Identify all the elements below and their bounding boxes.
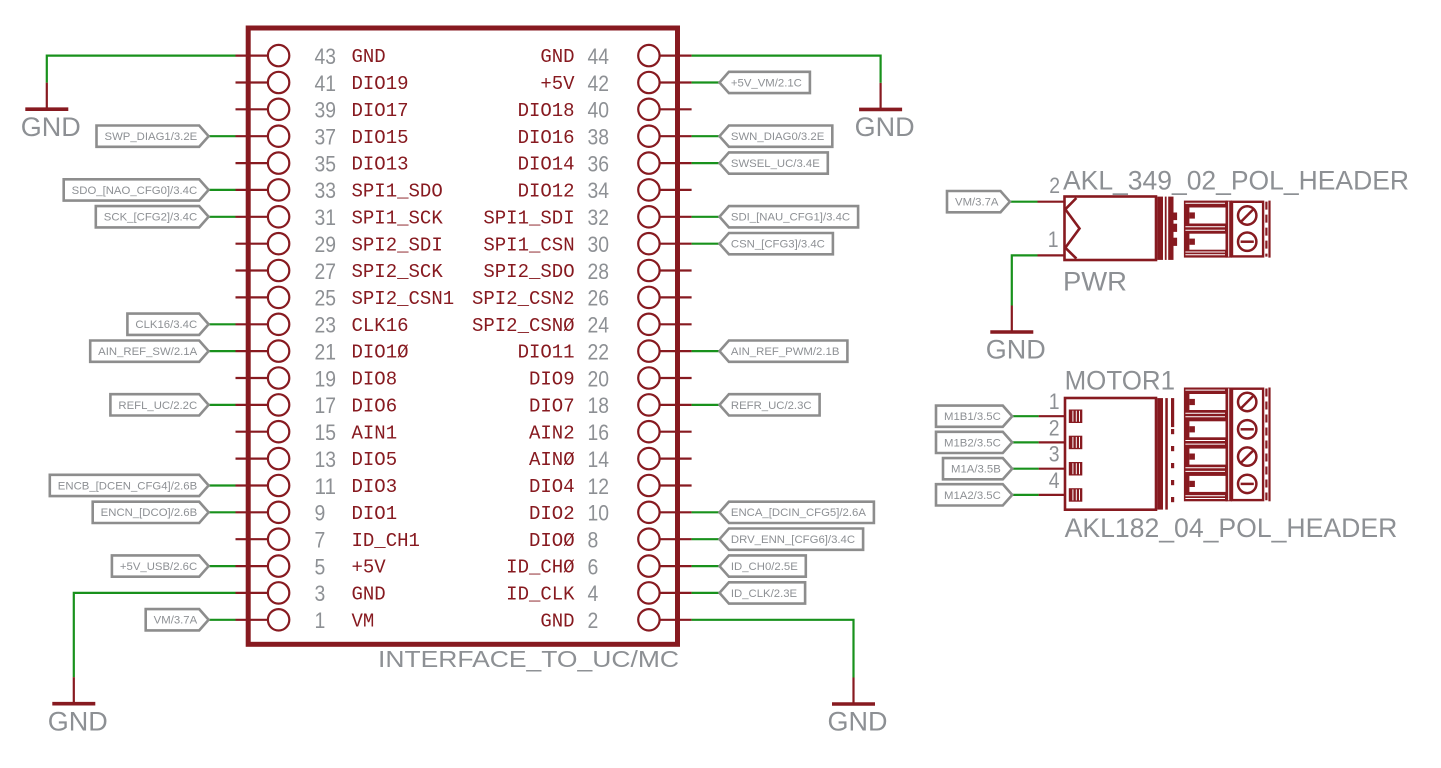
net flag M1B2/3.5C xyxy=(936,432,1012,453)
ground GND top-right xyxy=(855,83,915,142)
pin 4 MOTOR1 xyxy=(1039,468,1083,502)
svg-text:SPI2_SCK: SPI2_SCK xyxy=(352,261,444,283)
pin 38 DIO16 (right) xyxy=(518,125,692,150)
net flag M1A2/3.5C xyxy=(936,484,1012,505)
net flag ENCB_[DCEN_CFG4]/2.6B xyxy=(50,475,209,496)
svg-text:GND: GND xyxy=(828,707,888,737)
pin 26 SPI2_CSN2 (right) xyxy=(472,286,692,311)
svg-text:38: 38 xyxy=(588,125,610,150)
svg-text:2: 2 xyxy=(588,608,599,633)
pin 20 DIO9 (right) xyxy=(529,366,692,391)
svg-text:PWR: PWR xyxy=(1063,266,1127,296)
net flag SWP_DIAG1/3.2E xyxy=(97,126,209,147)
wire net SWP_DIAG1 xyxy=(209,135,236,137)
svg-text:SPI1_SCK: SPI1_SCK xyxy=(352,207,444,229)
svg-text:40: 40 xyxy=(588,98,610,123)
svg-text:AINØ: AINØ xyxy=(529,449,575,471)
wire net M1B1 xyxy=(1012,415,1038,417)
connector MOTOR1 symbol body xyxy=(1065,398,1174,510)
pin 34 DIO12 (right) xyxy=(518,178,692,203)
wire net SDI_[NAU_CFG1] xyxy=(692,216,720,218)
svg-text:32: 32 xyxy=(588,205,610,230)
svg-text:DIO3: DIO3 xyxy=(352,476,398,498)
svg-text:DIO16: DIO16 xyxy=(518,127,575,149)
wire GND pin 3 xyxy=(74,593,236,677)
pin 28 SPI2_SDO (right) xyxy=(483,259,691,284)
ground GND bottom-right xyxy=(828,678,888,737)
svg-text:DIO7: DIO7 xyxy=(529,396,575,418)
net flag ID_CLK/2.3E xyxy=(720,582,806,603)
svg-text:43: 43 xyxy=(315,44,337,69)
svg-text:8: 8 xyxy=(588,528,599,553)
svg-text:26: 26 xyxy=(588,286,610,311)
net flag +5V_VM/2.1C xyxy=(720,72,810,93)
pin 41 DIO19 (left) xyxy=(236,71,409,96)
svg-text:22: 22 xyxy=(588,339,610,364)
svg-text:DIO8: DIO8 xyxy=(352,369,398,391)
svg-text:DIO15: DIO15 xyxy=(352,127,409,149)
svg-text:GND: GND xyxy=(352,584,386,606)
pin 8 DIO0 (right) xyxy=(529,528,692,553)
pin 2 PWR xyxy=(1038,173,1065,202)
svg-text:GND: GND xyxy=(540,46,574,68)
wire net +5V_VM xyxy=(692,81,720,83)
net flag SDO_[NAO_CFG0]/3.4C xyxy=(64,179,209,200)
svg-text:SWN_DIAG0/3.2E: SWN_DIAG0/3.2E xyxy=(731,131,824,143)
svg-text:SWSEL_UC/3.4E: SWSEL_UC/3.4E xyxy=(731,158,820,170)
pin 25 SPI2_CSN1 (left) xyxy=(236,286,455,311)
net flag ENCN_[DCO]/2.6B xyxy=(93,502,209,523)
svg-text:18: 18 xyxy=(588,393,610,418)
pin 31 SPI1_SCK (left) xyxy=(236,205,444,230)
pin 23 CLK16 (left) xyxy=(236,313,409,338)
wire GND pin 44 xyxy=(692,56,881,83)
svg-text:SDO_[NAO_CFG0]/3.4C: SDO_[NAO_CFG0]/3.4C xyxy=(72,185,198,197)
svg-text:12: 12 xyxy=(588,474,610,499)
wire net ENCA_[DCIN_CFG5] xyxy=(692,511,720,513)
pin 39 DIO17 (left) xyxy=(236,98,409,123)
svg-text:DIO1: DIO1 xyxy=(352,503,398,525)
net flag SDI_[NAU_CFG1]/3.4C xyxy=(720,206,859,227)
svg-text:1: 1 xyxy=(315,608,326,633)
wire net M1A xyxy=(1012,468,1038,470)
svg-text:21: 21 xyxy=(315,339,337,364)
net flag DRV_ENN_[CFG6]/3.4C xyxy=(720,529,864,550)
net flag REFR_UC/2.3C xyxy=(720,394,820,415)
ground GND bottom-left xyxy=(48,677,108,736)
svg-text:5: 5 xyxy=(315,554,326,579)
svg-text:DRV_ENN_[CFG6]/3.4C: DRV_ENN_[CFG6]/3.4C xyxy=(731,534,855,546)
svg-text:SWP_DIAG1/3.2E: SWP_DIAG1/3.2E xyxy=(105,131,198,143)
pin 10 DIO2 (right) xyxy=(529,501,692,526)
svg-text:DIO1Ø: DIO1Ø xyxy=(352,342,409,364)
wire net AIN_REF_SW xyxy=(209,350,236,352)
ground GND top-left xyxy=(21,83,81,142)
svg-text:CLK16: CLK16 xyxy=(352,315,409,337)
wire net ID_CLK xyxy=(692,592,720,594)
svg-text:35: 35 xyxy=(315,151,337,176)
svg-text:ID_CLK/2.3E: ID_CLK/2.3E xyxy=(731,588,797,600)
svg-text:3: 3 xyxy=(1049,442,1060,467)
pin 44 GND (right) xyxy=(540,44,691,69)
pin 5 +5V (left) xyxy=(236,554,387,579)
net flag AIN_REF_PWM/2.1B xyxy=(720,341,848,362)
svg-text:SPI1_CSN: SPI1_CSN xyxy=(483,234,574,256)
svg-text:AIN1: AIN1 xyxy=(352,422,398,444)
svg-text:23: 23 xyxy=(315,313,337,338)
pin 9 DIO1 (left) xyxy=(236,501,398,526)
svg-text:GND: GND xyxy=(48,706,108,736)
svg-text:14: 14 xyxy=(588,447,610,472)
svg-text:+5V_USB/2.6C: +5V_USB/2.6C xyxy=(120,561,198,573)
pin 17 DIO6 (left) xyxy=(236,393,398,418)
svg-text:ENCB_[DCEN_CFG4]/2.6B: ENCB_[DCEN_CFG4]/2.6B xyxy=(58,480,197,492)
svg-text:SPI2_SDI: SPI2_SDI xyxy=(352,234,443,256)
pin 33 SPI1_SDO (left) xyxy=(236,178,443,203)
svg-text:DIO12: DIO12 xyxy=(518,181,575,203)
connector MOTOR1 package drawing (terminal block) xyxy=(1184,388,1271,502)
svg-text:SPI2_SDO: SPI2_SDO xyxy=(483,261,574,283)
svg-text:3: 3 xyxy=(315,581,326,606)
net flag SCK_[CFG2]/3.4C xyxy=(96,206,209,227)
net flag AIN_REF_SW/2.1A xyxy=(90,341,208,362)
svg-text:AIN_REF_PWM/2.1B: AIN_REF_PWM/2.1B xyxy=(731,346,840,358)
svg-text:28: 28 xyxy=(588,259,610,284)
wire net AIN_REF_PWM xyxy=(692,350,720,352)
svg-text:ENCN_[DCO]/2.6B: ENCN_[DCO]/2.6B xyxy=(101,507,198,519)
svg-text:42: 42 xyxy=(588,71,610,96)
svg-text:DIOØ: DIOØ xyxy=(529,530,575,552)
wire net SCK_[CFG2] xyxy=(209,216,236,218)
svg-text:6: 6 xyxy=(588,554,599,579)
svg-text:20: 20 xyxy=(588,366,610,391)
pin 21 DIO10 (left) xyxy=(236,339,409,364)
svg-text:4: 4 xyxy=(1049,468,1060,493)
pin 13 DIO5 (left) xyxy=(236,447,398,472)
connector PWR symbol body xyxy=(1065,197,1178,261)
pin 12 DIO4 (right) xyxy=(529,474,692,499)
net flag REFL_UC/2.2C xyxy=(110,394,208,415)
pin 24 SPI2_CSN0 (right) xyxy=(472,313,692,338)
svg-text:19: 19 xyxy=(315,366,337,391)
wire net M1A2 xyxy=(1012,494,1038,496)
net flag M1B1/3.5C xyxy=(936,406,1012,427)
svg-text:CSN_[CFG3]/3.4C: CSN_[CFG3]/3.4C xyxy=(731,239,825,251)
svg-text:DIO11: DIO11 xyxy=(518,342,575,364)
svg-text:REFR_UC/2.3C: REFR_UC/2.3C xyxy=(731,400,812,412)
svg-text:2: 2 xyxy=(1049,173,1060,198)
pin 40 DIO18 (right) xyxy=(518,98,692,123)
pin 1 MOTOR1 xyxy=(1039,389,1083,423)
svg-text:30: 30 xyxy=(588,232,610,257)
svg-text:GND: GND xyxy=(855,112,915,142)
pin 18 DIO7 (right) xyxy=(529,393,692,418)
svg-text:SPI2_CSN1: SPI2_CSN1 xyxy=(352,288,455,310)
svg-text:+5V: +5V xyxy=(352,557,387,579)
wire net REFR_UC xyxy=(692,404,720,406)
connector PWR package drawing (terminal block) xyxy=(1184,201,1271,258)
pin 2 GND (right) xyxy=(540,608,691,633)
connector U1 INTERFACE_TO_UC/MC body xyxy=(248,28,677,644)
svg-text:SPI2_CSN2: SPI2_CSN2 xyxy=(472,288,575,310)
svg-text:DIO5: DIO5 xyxy=(352,449,398,471)
pin 19 DIO8 (left) xyxy=(236,366,398,391)
svg-text:DIO6: DIO6 xyxy=(352,396,398,418)
pin 36 DIO14 (right) xyxy=(518,151,692,176)
svg-text:DIO19: DIO19 xyxy=(352,73,409,95)
wire net SWN_DIAG0 xyxy=(692,135,720,137)
svg-text:GND: GND xyxy=(540,610,574,632)
net flag +5V_USB/2.6C xyxy=(112,555,209,576)
svg-text:31: 31 xyxy=(315,205,337,230)
svg-text:29: 29 xyxy=(315,232,337,257)
pin 22 DIO11 (right) xyxy=(518,339,692,364)
net flag CSN_[CFG3]/3.4C xyxy=(720,233,833,254)
svg-text:AKL_349_02_POL_HEADER: AKL_349_02_POL_HEADER xyxy=(1063,166,1409,196)
pin 43 GND (left) xyxy=(236,44,386,69)
wire GND to PWR pin 1 xyxy=(1012,255,1038,305)
net flag ID_CH0/2.5E xyxy=(720,555,806,576)
svg-text:DIO4: DIO4 xyxy=(529,476,575,498)
wire net SDO_[NAO_CFG0] xyxy=(209,189,236,191)
net flag M1A/3.5B xyxy=(943,458,1012,479)
svg-text:24: 24 xyxy=(588,313,610,338)
svg-text:25: 25 xyxy=(315,286,337,311)
svg-text:ID_CH1: ID_CH1 xyxy=(352,530,420,552)
svg-text:39: 39 xyxy=(315,98,337,123)
wire net REFL_UC xyxy=(209,404,236,406)
pin 3 MOTOR1 xyxy=(1039,442,1083,476)
svg-text:1: 1 xyxy=(1049,389,1060,414)
svg-text:INTERFACE_TO_UC/MC: INTERFACE_TO_UC/MC xyxy=(378,646,679,672)
svg-text:+5V_VM/2.1C: +5V_VM/2.1C xyxy=(731,77,802,89)
svg-text:M1A/3.5B: M1A/3.5B xyxy=(951,464,1001,476)
svg-text:ENCA_[DCIN_CFG5]/2.6A: ENCA_[DCIN_CFG5]/2.6A xyxy=(731,507,867,519)
wire net M1B2 xyxy=(1012,441,1038,443)
svg-text:SPI2_CSNØ: SPI2_CSNØ xyxy=(472,315,575,337)
svg-text:16: 16 xyxy=(588,420,610,445)
svg-text:DIO9: DIO9 xyxy=(529,369,575,391)
svg-text:DIO17: DIO17 xyxy=(352,100,409,122)
svg-text:CLK16/3.4C: CLK16/3.4C xyxy=(135,319,197,331)
ground GND PWR xyxy=(986,306,1046,365)
svg-text:10: 10 xyxy=(588,501,610,526)
svg-text:2: 2 xyxy=(1049,415,1060,440)
svg-text:SPI1_SDI: SPI1_SDI xyxy=(483,207,574,229)
pin 42 +5V (right) xyxy=(540,71,691,96)
net flag SWSEL_UC/3.4E xyxy=(720,152,828,173)
svg-text:+5V: +5V xyxy=(540,73,575,95)
pin 1 VM (left) xyxy=(236,608,375,633)
pin 11 DIO3 (left) xyxy=(236,474,398,499)
pin 37 DIO15 (left) xyxy=(236,125,409,150)
svg-text:44: 44 xyxy=(588,44,610,69)
wire net ID_CH0 xyxy=(692,565,720,567)
svg-text:VM/3.7A: VM/3.7A xyxy=(154,615,198,627)
svg-text:27: 27 xyxy=(315,259,337,284)
svg-text:ID_CHØ: ID_CHØ xyxy=(506,557,574,579)
svg-text:SDI_[NAU_CFG1]/3.4C: SDI_[NAU_CFG1]/3.4C xyxy=(731,212,850,224)
pin 15 AIN1 (left) xyxy=(236,420,398,445)
net flag VM/3.7A (PWR) xyxy=(947,191,1010,212)
wire GND pin 43 xyxy=(47,56,236,83)
svg-text:DIO13: DIO13 xyxy=(352,154,409,176)
svg-text:DIO18: DIO18 xyxy=(518,100,575,122)
svg-text:1: 1 xyxy=(1048,227,1059,252)
pin 32 SPI1_SDI (right) xyxy=(483,205,691,230)
svg-text:VM: VM xyxy=(352,610,375,632)
pin 4 ID_CLK (right) xyxy=(506,581,691,606)
pin 27 SPI2_SCK (left) xyxy=(236,259,444,284)
svg-text:33: 33 xyxy=(315,178,337,203)
svg-text:GND: GND xyxy=(986,335,1046,365)
svg-text:AKL182_04_POL_HEADER: AKL182_04_POL_HEADER xyxy=(1065,513,1398,543)
wire net ENCB_[DCEN_CFG4] xyxy=(209,484,236,486)
pin 14 AIN0 (right) xyxy=(529,447,692,472)
svg-text:34: 34 xyxy=(588,178,610,203)
net flag SWN_DIAG0/3.2E xyxy=(720,126,833,147)
net flag CLK16/3.4C xyxy=(127,314,208,335)
pin 1 PWR xyxy=(1038,227,1065,256)
pin 30 SPI1_CSN (right) xyxy=(483,232,691,257)
svg-text:DIO14: DIO14 xyxy=(518,154,575,176)
pin 3 GND (left) xyxy=(236,581,386,606)
svg-text:AIN_REF_SW/2.1A: AIN_REF_SW/2.1A xyxy=(98,346,198,358)
svg-text:M1B2/3.5C: M1B2/3.5C xyxy=(944,437,1001,449)
svg-text:4: 4 xyxy=(588,581,599,606)
wire net ENCN_[DCO] xyxy=(209,511,236,513)
svg-text:GND: GND xyxy=(21,112,81,142)
svg-text:GND: GND xyxy=(352,46,386,68)
wire net CLK16 xyxy=(209,323,236,325)
svg-text:37: 37 xyxy=(315,125,337,150)
pin 6 ID_CH0 (right) xyxy=(506,554,691,579)
svg-text:VM/3.7A: VM/3.7A xyxy=(955,197,999,209)
wire GND pin 2 xyxy=(692,620,854,678)
svg-text:11: 11 xyxy=(315,474,337,499)
pin 35 DIO13 (left) xyxy=(236,151,409,176)
svg-text:M1B1/3.5C: M1B1/3.5C xyxy=(944,411,1001,423)
pin 16 AIN2 (right) xyxy=(529,420,692,445)
svg-text:ID_CLK: ID_CLK xyxy=(506,584,575,606)
svg-text:7: 7 xyxy=(315,528,326,553)
net flag VM/3.7A xyxy=(146,609,209,630)
svg-text:M1A2/3.5C: M1A2/3.5C xyxy=(944,490,1001,502)
svg-text:41: 41 xyxy=(315,71,337,96)
svg-text:36: 36 xyxy=(588,151,610,176)
svg-text:AIN2: AIN2 xyxy=(529,422,575,444)
svg-text:17: 17 xyxy=(315,393,337,418)
wire net CSN_[CFG3] xyxy=(692,243,720,245)
svg-text:9: 9 xyxy=(315,501,326,526)
wire net VM to PWR pin 2 xyxy=(1010,201,1038,203)
wire net DRV_ENN_[CFG6] xyxy=(692,538,720,540)
svg-text:13: 13 xyxy=(315,447,337,472)
pin 29 SPI2_SDI (left) xyxy=(236,232,443,257)
svg-text:SCK_[CFG2]/3.4C: SCK_[CFG2]/3.4C xyxy=(104,212,198,224)
svg-text:SPI1_SDO: SPI1_SDO xyxy=(352,181,443,203)
pin 2 MOTOR1 xyxy=(1039,415,1083,449)
svg-text:DIO2: DIO2 xyxy=(529,503,575,525)
svg-text:15: 15 xyxy=(315,420,337,445)
svg-text:MOTOR1: MOTOR1 xyxy=(1065,365,1175,395)
net flag ENCA_[DCIN_CFG5]/2.6A xyxy=(720,502,874,523)
svg-text:ID_CH0/2.5E: ID_CH0/2.5E xyxy=(731,561,798,573)
svg-text:REFL_UC/2.2C: REFL_UC/2.2C xyxy=(118,400,197,412)
wire net VM xyxy=(209,619,236,621)
pin 7 ID_CH1 (left) xyxy=(236,528,420,553)
wire net SWSEL_UC xyxy=(692,162,720,164)
wire net +5V_USB xyxy=(209,565,236,567)
